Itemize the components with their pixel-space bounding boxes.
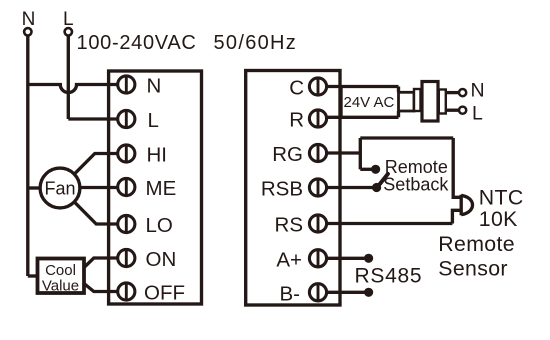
svg-text:Cool: Cool xyxy=(45,262,76,279)
svg-text:ME: ME xyxy=(146,177,177,200)
transformer plug tab xyxy=(399,92,415,111)
svg-text:ON: ON xyxy=(146,248,177,271)
wire A+ right xyxy=(327,257,365,260)
svg-text:Sensor: Sensor xyxy=(438,256,508,280)
junction dot A+ xyxy=(364,254,373,263)
transformer left bar xyxy=(414,89,421,111)
wire L to terminal L xyxy=(68,117,119,120)
node L (mains input label) xyxy=(63,9,74,30)
wire RS to sensor xyxy=(327,210,461,223)
label A+ xyxy=(276,248,302,271)
wire R to transformer xyxy=(327,116,399,119)
switch blade remote setback xyxy=(379,174,388,185)
label Setback xyxy=(383,175,449,195)
label N out xyxy=(471,80,485,102)
wire N-vertical to cool value box xyxy=(28,274,38,277)
label C xyxy=(289,77,304,100)
label L xyxy=(148,109,159,132)
terminal circle L input xyxy=(65,28,72,35)
24V AC label box xyxy=(341,87,399,118)
svg-text:50/60Hz: 50/60Hz xyxy=(214,32,298,54)
svg-text:RS485: RS485 xyxy=(355,265,423,288)
terminal OFF xyxy=(118,283,135,300)
svg-text:HI: HI xyxy=(147,143,168,166)
wire RSB right xyxy=(327,186,373,189)
svg-text:LO: LO xyxy=(146,214,173,237)
terminal HI xyxy=(118,145,135,162)
terminal RG xyxy=(309,144,326,161)
label RS xyxy=(275,214,303,237)
label L out xyxy=(472,103,483,125)
wire B- right xyxy=(327,291,365,294)
svg-text:Setback: Setback xyxy=(383,175,449,195)
fan circle U-Fan xyxy=(40,168,80,208)
left terminal block xyxy=(109,71,202,304)
right terminal block xyxy=(246,71,340,306)
terminal C xyxy=(309,78,326,95)
cool value box xyxy=(38,259,85,294)
wire N to terminal N with hop over L xyxy=(28,85,119,93)
svg-text:Value: Value xyxy=(42,277,79,294)
terminal A+ xyxy=(309,250,326,267)
label 24V AC xyxy=(344,94,395,111)
transformer core xyxy=(422,82,438,122)
label 10K xyxy=(479,207,518,231)
wire cool value to ON xyxy=(84,258,119,268)
wire C to transformer xyxy=(327,85,399,88)
label LO xyxy=(146,214,173,237)
transformer right bar xyxy=(439,90,446,114)
label Fan xyxy=(44,179,75,199)
terminal circle L out xyxy=(459,107,466,114)
terminal circle N out xyxy=(459,89,466,96)
label HI xyxy=(147,143,168,166)
label RG xyxy=(272,143,303,166)
label Remote xyxy=(385,157,448,177)
svg-text:10K: 10K xyxy=(479,207,518,231)
label 100-240VAC 50/60Hz xyxy=(77,32,298,54)
svg-text:C: C xyxy=(289,77,304,100)
terminal circle N input xyxy=(24,28,31,35)
wire N vertical xyxy=(26,36,29,276)
label Value xyxy=(42,277,79,294)
label Remote (sensor) xyxy=(438,232,515,256)
label R xyxy=(289,109,304,132)
label ON xyxy=(146,248,177,271)
junction dot Remote xyxy=(371,165,380,174)
terminal ME xyxy=(118,178,135,195)
svg-text:R: R xyxy=(289,109,304,132)
label RS485 xyxy=(355,265,423,288)
svg-text:L: L xyxy=(148,109,159,132)
svg-text:RSB: RSB xyxy=(261,178,303,201)
wire transformer to L xyxy=(446,109,459,112)
terminal N xyxy=(118,76,135,93)
svg-text:L: L xyxy=(472,103,483,125)
label OFF xyxy=(144,281,185,304)
svg-text:Remote: Remote xyxy=(438,232,515,256)
terminal R xyxy=(309,110,326,127)
terminal RS xyxy=(309,215,326,232)
wire right vertical down to sensor xyxy=(453,138,461,197)
terminal B- xyxy=(309,284,326,301)
label RSB xyxy=(261,178,303,201)
wire cool value to OFF xyxy=(84,284,119,292)
terminal LO xyxy=(118,215,135,232)
terminal ON xyxy=(118,249,135,266)
svg-text:N: N xyxy=(147,74,162,97)
label ME xyxy=(146,177,177,200)
wire fan left stub xyxy=(28,186,40,189)
terminal L xyxy=(118,110,135,127)
wire stub to remote dot xyxy=(360,168,372,171)
NTC sensor xyxy=(461,195,472,216)
svg-text:RG: RG xyxy=(272,143,303,166)
label NTC xyxy=(479,185,524,209)
label N xyxy=(147,74,162,97)
svg-text:100-240VAC: 100-240VAC xyxy=(77,32,197,54)
svg-text:RS: RS xyxy=(275,214,303,237)
wire transformer to N xyxy=(446,91,459,94)
wire top run to sensor xyxy=(360,136,453,139)
terminal RSB xyxy=(309,179,326,196)
node N (mains input label) xyxy=(22,9,36,30)
wire fan to LO xyxy=(74,202,119,224)
wire RG vertical up xyxy=(359,138,362,169)
svg-text:NTC: NTC xyxy=(479,185,524,209)
label Sensor xyxy=(438,256,508,280)
wire RG right xyxy=(327,151,361,154)
label Cool xyxy=(45,262,76,279)
junction dot B- xyxy=(364,288,373,297)
svg-text:24V AC: 24V AC xyxy=(344,94,395,111)
svg-text:A+: A+ xyxy=(276,248,302,271)
wire L vertical xyxy=(67,36,70,119)
svg-text:N: N xyxy=(471,80,485,102)
wire fan to ME xyxy=(80,186,119,190)
svg-text:B-: B- xyxy=(280,282,301,305)
junction dot RSB xyxy=(372,183,381,192)
svg-text:Fan: Fan xyxy=(44,179,75,199)
label B- xyxy=(280,282,301,305)
svg-text:OFF: OFF xyxy=(144,281,185,304)
wire fan to HI xyxy=(74,154,119,175)
